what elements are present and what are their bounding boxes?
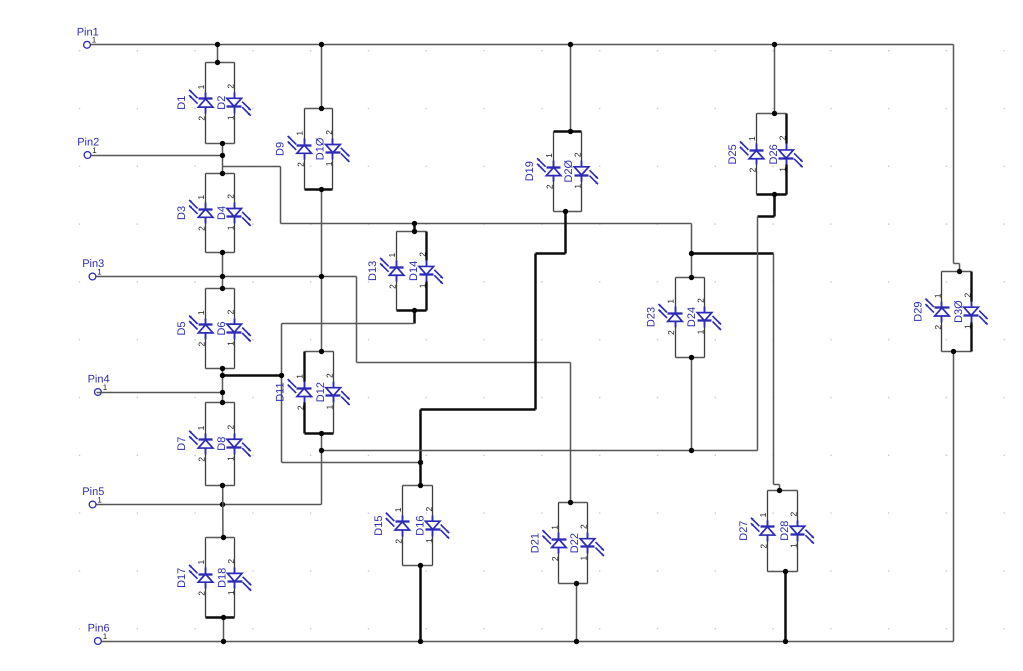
svg-text:2: 2 (225, 194, 235, 199)
svg-text:2: 2 (393, 539, 403, 544)
wire D7/D8 bottom (206, 485, 235, 487)
D1 leads (205, 63, 207, 93)
wire D26 leg (785, 114, 787, 144)
svg-text:D19: D19 (524, 161, 536, 181)
LED D1 (189, 90, 213, 114)
junction D19/D20 top (568, 129, 573, 134)
wire (784, 572, 787, 642)
wire D19/D20 top (554, 130, 582, 133)
junction D11/D12 top (319, 349, 324, 354)
LED D20 (574, 161, 598, 185)
wire Pin5 (97, 504, 322, 506)
svg-text:1: 1 (196, 425, 206, 430)
junction D3/D4 top (220, 171, 225, 176)
D25 leads (756, 114, 758, 144)
wire (281, 223, 692, 225)
D21 leads (558, 503, 560, 533)
junction D1/D2 top (215, 60, 220, 65)
wire (322, 450, 758, 452)
junction (279, 373, 284, 378)
wire D27/D28 bottom (768, 571, 798, 573)
svg-text:D23: D23 (646, 307, 658, 327)
svg-text:2: 2 (962, 292, 972, 297)
junction D1/D2 bottom (220, 141, 225, 146)
LED D21 (542, 530, 566, 553)
wire (223, 166, 281, 168)
wire (222, 369, 224, 403)
svg-text:1: 1 (324, 161, 334, 166)
svg-text:1: 1 (393, 507, 403, 512)
wire D15/D16 bottom (403, 565, 433, 567)
wire (281, 324, 283, 463)
junction (220, 390, 225, 395)
wire (217, 45, 219, 63)
wire D9/D10 bottom (305, 188, 333, 191)
svg-text:2: 2 (324, 373, 334, 378)
wire (773, 254, 775, 485)
svg-text:1: 1 (696, 329, 706, 334)
svg-text:2: 2 (295, 162, 305, 167)
svg-text:D4: D4 (216, 206, 228, 220)
svg-text:1: 1 (789, 543, 799, 548)
D15 leads (402, 486, 404, 516)
junction (574, 639, 579, 644)
wire (570, 363, 572, 503)
wire D25/D26 bottom (757, 193, 787, 196)
svg-text:D1: D1 (176, 96, 188, 110)
svg-text:1: 1 (424, 538, 434, 543)
junction D19/D20 bottom (563, 209, 568, 214)
junction D25/D26 bottom (772, 192, 777, 197)
svg-text:2: 2 (226, 559, 236, 564)
wire (576, 584, 578, 642)
svg-text:2: 2 (573, 152, 583, 157)
junction D29/D30 bottom (951, 349, 956, 354)
svg-text:D25: D25 (727, 144, 739, 164)
wire Pin4 (97, 392, 223, 394)
junction D29/D30 top (957, 269, 962, 274)
D18 leads (234, 538, 236, 568)
wire D13/D14 bottom (397, 309, 427, 312)
D27 leads (767, 491, 769, 521)
svg-text:2: 2 (933, 325, 943, 330)
svg-text:2: 2 (545, 184, 555, 189)
svg-text:D2: D2 (216, 96, 228, 110)
svg-text:2: 2 (418, 252, 428, 257)
svg-text:1: 1 (103, 383, 108, 392)
D29 leads (941, 272, 943, 302)
pin Pin6 (88, 623, 110, 645)
svg-text:D13: D13 (367, 261, 379, 281)
wire (691, 358, 693, 451)
wire (321, 434, 323, 505)
svg-text:2: 2 (789, 512, 799, 517)
svg-text:2: 2 (225, 309, 235, 314)
D8 leads (234, 403, 236, 434)
junction D11/D12 bottom (319, 431, 324, 436)
D3 leads (205, 174, 207, 203)
LED D19 (537, 158, 561, 181)
D19 leads (553, 132, 555, 161)
svg-text:1: 1 (97, 267, 102, 276)
LED D11 (288, 379, 312, 402)
LED D7 (189, 431, 213, 455)
svg-text:D9: D9 (275, 142, 287, 156)
LED D27 (751, 518, 775, 542)
svg-text:2: 2 (197, 457, 207, 462)
wire (534, 254, 537, 410)
svg-text:1: 1 (418, 283, 428, 288)
svg-text:D16: D16 (414, 516, 426, 536)
svg-text:D27: D27 (738, 521, 750, 541)
svg-text:1: 1 (226, 590, 236, 595)
wire D9/D10 top (305, 108, 333, 110)
svg-text:2: 2 (197, 591, 207, 596)
svg-text:2: 2 (295, 405, 305, 410)
LED D29 (925, 299, 949, 323)
junction (418, 639, 423, 644)
junction D21/D22 top (568, 500, 573, 505)
D16 leads (432, 486, 434, 516)
junction (568, 42, 573, 47)
pin Pin3 (82, 258, 104, 280)
wire (564, 212, 567, 254)
LED D26 (779, 144, 803, 168)
svg-text:D14: D14 (408, 261, 420, 281)
D10 leads (332, 109, 334, 139)
LED D13 (380, 258, 404, 282)
LED D16 (425, 516, 449, 539)
svg-text:1: 1 (196, 195, 206, 200)
junction D17/D18 bottom (221, 615, 226, 620)
junction (319, 42, 324, 47)
wire (223, 374, 282, 377)
svg-text:1: 1 (196, 559, 206, 564)
pin Pin4 (88, 374, 110, 396)
svg-text:D3Ø: D3Ø (953, 300, 965, 323)
svg-text:D24: D24 (686, 307, 698, 327)
svg-text:2: 2 (225, 84, 235, 89)
LED D15 (386, 513, 410, 537)
LED D9 (288, 136, 312, 160)
wire D3/D4 top (206, 173, 235, 175)
svg-text:1: 1 (549, 525, 559, 530)
wire (953, 45, 955, 264)
LED D22 (580, 533, 604, 557)
junction D17/D18 top (221, 535, 226, 540)
svg-text:2: 2 (197, 116, 207, 121)
svg-text:D15: D15 (373, 516, 385, 536)
svg-text:2: 2 (666, 330, 676, 335)
LED D2 (227, 93, 251, 116)
wire Pin3 (97, 276, 357, 278)
LED D3 (189, 200, 213, 224)
LED D8 (227, 434, 251, 457)
junction (783, 639, 788, 644)
wire D29/D30 bottom (942, 351, 972, 353)
D2 leads (234, 63, 236, 93)
wire Pin2 (92, 155, 223, 157)
LED D5 (189, 316, 213, 340)
wire (282, 462, 421, 464)
junction (220, 502, 225, 507)
svg-text:1: 1 (295, 374, 305, 379)
wire D29/D30 top (942, 271, 972, 273)
junction D15/D16 top (418, 483, 423, 488)
wire (419, 410, 422, 486)
junction D15/D16 bottom (418, 563, 423, 568)
svg-text:D2Ø: D2Ø (563, 159, 575, 182)
junction D5/D6 top (220, 286, 225, 291)
wire D11/D12 bottom (305, 432, 334, 435)
junction (220, 153, 225, 158)
svg-text:D26: D26 (768, 144, 780, 164)
wire (959, 264, 961, 272)
wire (757, 217, 759, 451)
svg-text:2: 2 (324, 130, 334, 135)
wire (774, 484, 780, 486)
D22 leads (587, 503, 589, 533)
svg-text:2: 2 (197, 226, 207, 231)
svg-text:D3: D3 (176, 206, 188, 220)
wire D25/D26 top (757, 113, 787, 115)
wire Pin1 bus (91, 44, 954, 46)
svg-text:D5: D5 (176, 321, 188, 335)
svg-text:1: 1 (758, 512, 768, 517)
wire (570, 45, 572, 132)
svg-text:1: 1 (225, 456, 235, 461)
svg-text:1: 1 (225, 115, 235, 120)
svg-text:D1Ø: D1Ø (315, 137, 327, 160)
pin Pin5 (82, 486, 104, 508)
junction (689, 448, 694, 453)
wire (773, 195, 776, 217)
junction D23/D24 bottom (689, 355, 694, 360)
wire D23/D24 bottom (676, 357, 705, 359)
svg-text:D8: D8 (216, 437, 228, 451)
wire D11 leg (303, 352, 305, 382)
wire D17/D18 top (206, 537, 235, 539)
junction D21/D22 bottom (574, 581, 579, 586)
svg-text:D6: D6 (216, 321, 228, 335)
wire (779, 485, 781, 491)
junction D5/D6 bottom (220, 366, 225, 371)
wire D1/D2 top (206, 62, 235, 64)
svg-text:1: 1 (962, 324, 972, 329)
junction D9/D10 bottom (319, 187, 324, 192)
svg-text:1: 1 (544, 153, 554, 158)
LED D30 (964, 302, 988, 325)
D6 leads (234, 289, 236, 319)
svg-text:2: 2 (225, 425, 235, 430)
svg-text:D11: D11 (275, 382, 287, 401)
D17 leads (205, 538, 207, 568)
wire (321, 190, 323, 277)
LED D10 (326, 139, 350, 162)
LED D17 (189, 565, 213, 589)
LED D24 (697, 307, 721, 331)
D23 leads (675, 278, 677, 307)
wire D19/D20 bottom (554, 211, 582, 213)
svg-text:1: 1 (747, 136, 757, 141)
svg-text:2: 2 (388, 284, 398, 289)
LED D25 (740, 141, 764, 164)
wire (774, 45, 776, 114)
wire D11/D12 top (305, 351, 334, 353)
svg-text:2: 2 (748, 167, 758, 172)
svg-text:2: 2 (696, 298, 706, 303)
wire D3/D4 bottom (206, 252, 235, 254)
junction (412, 221, 417, 226)
wire (954, 263, 960, 265)
wire (321, 277, 323, 352)
svg-text:D7: D7 (176, 437, 188, 451)
junction (772, 42, 777, 47)
svg-text:1: 1 (777, 167, 787, 172)
pin Pin2 (77, 137, 99, 159)
junction (215, 42, 220, 47)
svg-text:1: 1 (579, 555, 589, 560)
wire D13/D14 top (397, 231, 427, 233)
junction (689, 251, 694, 256)
wire (222, 144, 224, 174)
LED D12 (326, 382, 350, 406)
pin Pin1 (77, 27, 99, 49)
junction (418, 460, 423, 465)
wire (321, 45, 323, 109)
wire D14 leg (425, 232, 427, 261)
D12 leads (333, 352, 335, 382)
svg-text:D22: D22 (569, 533, 581, 553)
wire D1/D2 bottom (206, 143, 235, 145)
junction D3/D4 bottom (220, 250, 225, 255)
junction D13/D14 top (412, 229, 417, 234)
svg-text:1: 1 (666, 299, 676, 304)
D5 leads (205, 289, 207, 319)
svg-text:D18: D18 (216, 568, 228, 588)
svg-text:2: 2 (579, 524, 589, 529)
svg-text:1: 1 (196, 310, 206, 315)
junction (319, 274, 324, 279)
junction D27/D28 bottom (783, 569, 788, 574)
svg-text:1: 1 (387, 253, 397, 258)
wire (536, 252, 566, 255)
wire D21/D22 top (559, 502, 588, 504)
wire (413, 224, 416, 232)
LED D4 (227, 203, 251, 226)
svg-text:1: 1 (92, 36, 97, 45)
svg-text:2: 2 (424, 506, 434, 511)
wire (691, 224, 693, 278)
svg-text:1: 1 (225, 225, 235, 230)
LED D23 (659, 304, 683, 328)
svg-text:1: 1 (97, 495, 102, 504)
junction (220, 274, 225, 279)
LED D28 (790, 521, 814, 544)
wire D23/D24 top (676, 277, 705, 279)
D9 leads (304, 109, 306, 139)
junction (319, 448, 324, 453)
wire (280, 167, 282, 224)
svg-text:1: 1 (225, 341, 235, 346)
svg-text:1: 1 (932, 293, 942, 298)
wire (223, 618, 225, 642)
junction D7/D8 top (220, 400, 225, 405)
svg-text:1: 1 (196, 84, 206, 89)
junction D23/D24 top (689, 275, 694, 280)
wire (953, 352, 955, 642)
svg-text:D17: D17 (176, 568, 188, 588)
svg-text:D29: D29 (912, 302, 924, 322)
svg-text:1: 1 (324, 404, 334, 409)
LED D18 (227, 568, 251, 591)
junction D9/D10 top (319, 106, 324, 111)
wire (419, 566, 422, 642)
junction D13/D14 bottom (412, 308, 417, 313)
junction D25/D26 top (772, 111, 777, 116)
wire D17/D18 bottom (206, 616, 235, 619)
wire Pin6 (102, 641, 954, 643)
svg-text:2: 2 (777, 135, 787, 140)
wire D15/D16 top (403, 485, 433, 487)
wire (282, 323, 415, 325)
D24 leads (704, 278, 706, 307)
wire D5/D6 bottom (206, 368, 235, 370)
wire (421, 408, 536, 411)
D28 leads (797, 491, 799, 521)
wire D27/D28 top (768, 490, 798, 492)
svg-text:1: 1 (573, 184, 583, 189)
svg-text:1: 1 (92, 146, 97, 155)
svg-text:2: 2 (550, 556, 560, 561)
D4 leads (234, 174, 236, 203)
D13 leads (396, 232, 398, 261)
svg-text:D12: D12 (315, 382, 327, 402)
wire D5/D6 top (206, 288, 235, 290)
wire (692, 252, 774, 255)
D7 leads (205, 403, 207, 434)
svg-text:D28: D28 (779, 521, 791, 541)
wire D21/D22 bottom (559, 583, 588, 585)
svg-text:D21: D21 (529, 533, 541, 553)
svg-text:1: 1 (295, 131, 305, 136)
D20 leads (581, 132, 583, 161)
svg-text:2: 2 (759, 544, 769, 549)
junction (221, 639, 226, 644)
svg-text:2: 2 (197, 341, 207, 346)
junction D7/D8 bottom (220, 483, 225, 488)
LED D6 (227, 319, 251, 342)
wire (356, 277, 358, 363)
wire (222, 485, 224, 538)
wire (222, 253, 224, 289)
wire D30 leg (970, 272, 972, 302)
wire (413, 311, 416, 324)
wire (357, 362, 571, 364)
wire D7/D8 top (206, 402, 235, 404)
junction (220, 373, 225, 378)
wire (758, 215, 775, 218)
junction D27/D28 top (777, 488, 782, 493)
LED D14 (419, 261, 443, 284)
svg-text:1: 1 (103, 632, 108, 641)
